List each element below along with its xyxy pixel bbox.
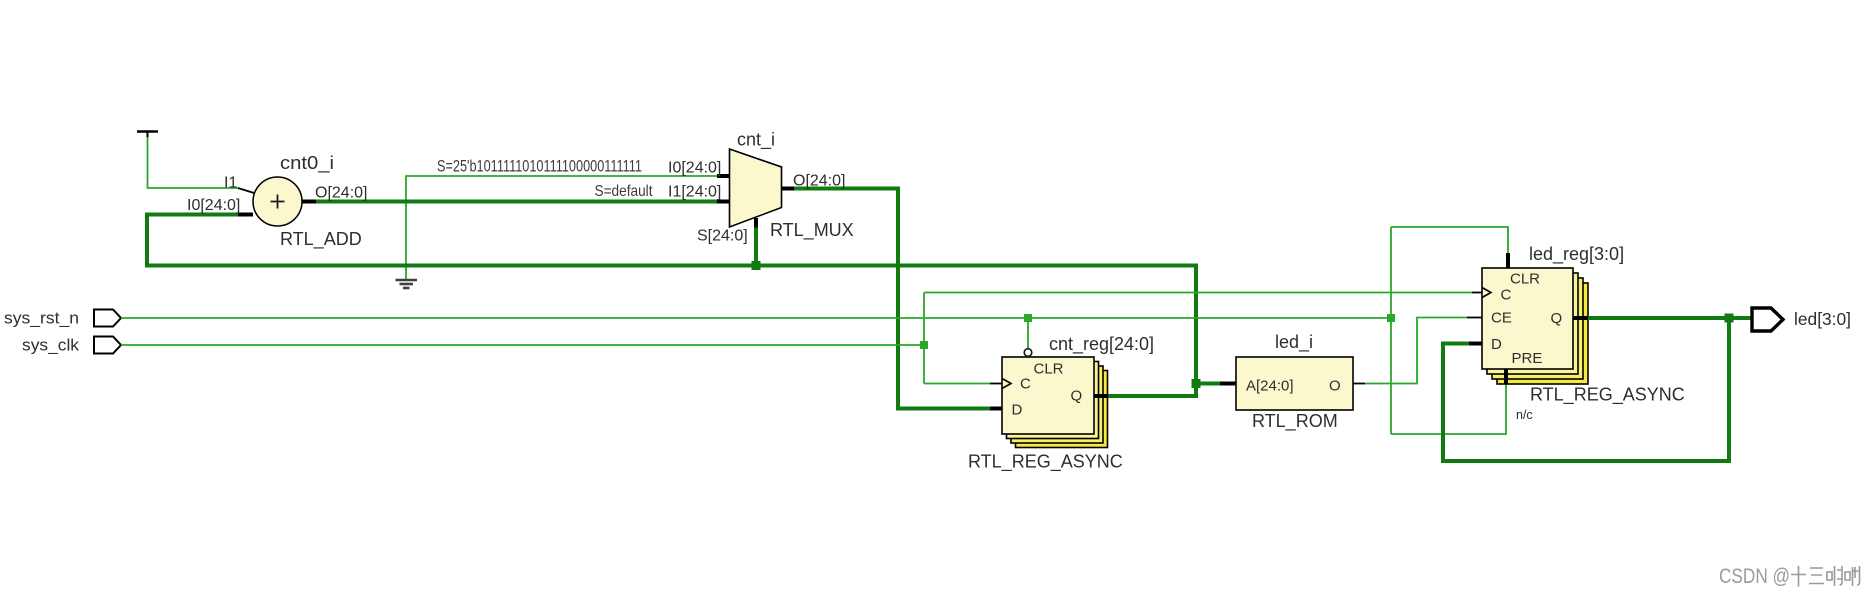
watermark CJK glyphs 十三啊嘞 xyxy=(1791,566,1860,587)
svg-text:I0[24:0]: I0[24:0] xyxy=(668,160,721,177)
svg-text:S=default: S=default xyxy=(595,183,653,200)
svg-text:O[24:0]: O[24:0] xyxy=(793,173,845,190)
pin stub: mux S xyxy=(754,218,758,228)
output port led[3:0] xyxy=(1752,308,1783,331)
wire: adder feedback bus Q net (thick) xyxy=(147,215,1196,397)
svg-text:PRE: PRE xyxy=(1512,350,1543,367)
wire: mux S to bus (thick) xyxy=(754,227,758,266)
svg-text:O: O xyxy=(1329,378,1341,395)
svg-text:Q: Q xyxy=(1551,310,1563,327)
svg-text:led_reg[3:0]: led_reg[3:0] xyxy=(1529,244,1624,265)
pin stub: cnt_reg Q xyxy=(1094,394,1108,398)
svg-text:C: C xyxy=(1501,287,1512,304)
junction: mux S on feedback bus xyxy=(752,261,761,270)
svg-text:I1: I1 xyxy=(224,175,237,192)
svg-text:RTL_ROM: RTL_ROM xyxy=(1252,411,1338,432)
pin stub: mux I1 xyxy=(717,200,730,204)
svg-text:CLR: CLR xyxy=(1034,361,1064,378)
svg-text:led_i: led_i xyxy=(1275,332,1313,353)
svg-text:sys_rst_n: sys_rst_n xyxy=(4,309,79,328)
svg-text:cnt_reg[24:0]: cnt_reg[24:0] xyxy=(1049,334,1154,355)
pin stub: adder I1 xyxy=(238,188,254,193)
wire: led_reg Q to output port (thick) xyxy=(1588,316,1752,320)
register cnt_reg[24:0] (RTL_REG_ASYNC) stack xyxy=(1002,357,1108,448)
pin stub: rom A[24:0] xyxy=(1220,382,1236,386)
svg-text:D: D xyxy=(1491,336,1502,353)
net sys_rst_n: branch to cnt_reg CLR bubble xyxy=(1027,318,1029,349)
net sys_clk: horizontal wire from port xyxy=(121,344,924,346)
wire: Q net branch to ROM A (thick) xyxy=(1196,382,1222,386)
net sys_rst_n: main horizontal wire xyxy=(121,317,1391,319)
pin stub: led_reg D xyxy=(1469,342,1482,346)
pin stub: adder I0 xyxy=(238,213,253,217)
svg-text:C: C xyxy=(1020,376,1031,393)
pin bubble: cnt_reg CLR xyxy=(1024,349,1032,357)
svg-text:n/c: n/c xyxy=(1516,408,1533,422)
junction: clk tee xyxy=(920,341,928,349)
net sys_rst_n: bottom run to led_reg PRE xyxy=(1391,384,1506,434)
pin stub + arrow: cnt_reg C clock xyxy=(990,379,1011,389)
pin stub: led_reg Q xyxy=(1573,316,1588,320)
power symbol (constant 1 supply) xyxy=(137,132,158,139)
input port sys_clk xyxy=(94,337,121,354)
svg-text:I1[24:0]: I1[24:0] xyxy=(668,184,721,201)
pin stub: led_reg CE xyxy=(1467,317,1482,319)
pin stub: adder O xyxy=(302,200,316,204)
wire: ground constant to mux I0 (thin) xyxy=(406,176,717,279)
ground symbol xyxy=(396,280,418,288)
junction: ROM A tap on Q net xyxy=(1192,379,1201,388)
net sys_clk: run to cnt_reg C xyxy=(924,383,990,385)
junction: led feedback tap xyxy=(1725,314,1734,323)
svg-text:CLR: CLR xyxy=(1510,271,1540,288)
svg-text:led[3:0]: led[3:0] xyxy=(1794,309,1851,329)
svg-text:CE: CE xyxy=(1491,310,1512,327)
wire: led_reg Q feedback to D (thick) xyxy=(1443,318,1729,461)
pin stub: rom O xyxy=(1353,383,1365,385)
svg-text:O[24:0]: O[24:0] xyxy=(315,185,367,202)
svg-text:RTL_REG_ASYNC: RTL_REG_ASYNC xyxy=(968,452,1123,473)
svg-text:Q: Q xyxy=(1071,388,1083,405)
wire: rom O to led_reg CE (thin) xyxy=(1365,318,1467,384)
pin stub + arrow: led_reg C clock xyxy=(1472,288,1491,298)
svg-text:A[24:0]: A[24:0] xyxy=(1246,378,1294,395)
svg-text:CSDN @: CSDN @ xyxy=(1719,565,1790,588)
rom led_i (RTL_ROM) xyxy=(1236,357,1353,410)
pin stub: mux O xyxy=(782,187,795,191)
adder U cnt0_i (RTL_ADD) xyxy=(253,177,302,226)
svg-text:RTL_REG_ASYNC: RTL_REG_ASYNC xyxy=(1530,385,1685,406)
svg-text:S=25'b101111101011110000011111: S=25'b1011111010111100000111111 xyxy=(437,158,642,176)
svg-text:cnt_i: cnt_i xyxy=(737,130,775,151)
wire: power to adder I1 (thin) xyxy=(148,137,239,188)
svg-text:cnt0_i: cnt0_i xyxy=(280,153,334,174)
junction: rst to cnt_reg CLR xyxy=(1024,314,1032,322)
net sys_rst_n: top run to led_reg CLR xyxy=(1391,227,1508,254)
svg-text:sys_clk: sys_clk xyxy=(22,336,80,355)
input port sys_rst_n xyxy=(94,310,121,327)
net sys_clk: vertical riser xyxy=(923,293,925,384)
pin stub: led_reg PRE (bottom) xyxy=(1504,369,1508,384)
register led_reg[3:0] (RTL_REG_ASYNC) stack xyxy=(1482,268,1588,384)
mux U cnt_i (RTL_MUX) xyxy=(730,149,782,227)
wire: adder O to mux I1 (thick) xyxy=(316,200,717,204)
pin stub: mux I0 xyxy=(717,174,730,178)
svg-text:D: D xyxy=(1012,402,1023,419)
svg-text:S[24:0]: S[24:0] xyxy=(697,228,748,245)
svg-text:I0[24:0]: I0[24:0] xyxy=(187,197,240,214)
pin stub: led_reg CLR (top) xyxy=(1506,253,1510,268)
junction: rst riser xyxy=(1387,314,1395,322)
wire: mux O to cnt_reg D (thick) xyxy=(794,189,990,409)
pin stub: cnt_reg D xyxy=(990,407,1002,411)
svg-text:RTL_ADD: RTL_ADD xyxy=(280,229,362,250)
net sys_rst_n: vertical riser to led_reg xyxy=(1390,227,1392,434)
svg-text:RTL_MUX: RTL_MUX xyxy=(770,220,854,241)
net sys_clk: run to led_reg C xyxy=(924,292,1472,294)
